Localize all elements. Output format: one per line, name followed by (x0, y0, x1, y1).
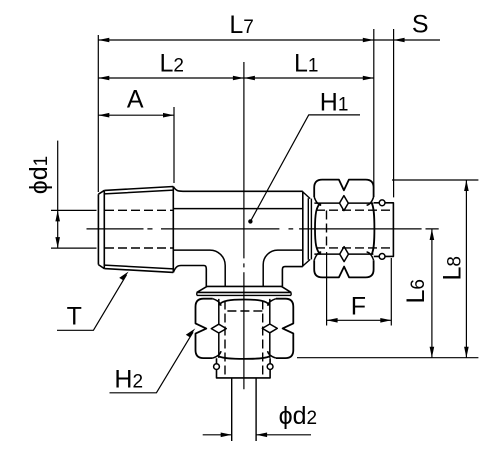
leader H1 with dot (250, 115, 360, 221)
body hex flat lower line with branch elbows (174, 250, 303, 286)
nut hex chamfer curves bottom (314, 252, 373, 260)
tapered male thread T outline (98, 187, 173, 273)
body end chamfers (303, 192, 310, 266)
extension line L8 top (nut top) (392, 179, 478, 181)
dimension L6 (431, 229, 433, 358)
thread crest lines (104, 190, 173, 269)
extension line left (x=98) (97, 35, 99, 192)
dimension phi d1 arrow stem (57, 141, 59, 249)
nut hex chamfer curves top (314, 197, 373, 205)
body right end face (302, 191, 304, 266)
extension line S right (x=394) (393, 29, 395, 197)
svg-text:A: A (127, 86, 144, 114)
svg-text:S: S (412, 11, 429, 39)
dimension F extension lines (327, 252, 392, 326)
dimension L2 / L1 (98, 77, 374, 79)
cap nub circles (379, 200, 385, 206)
body hex flat upper line (174, 208, 303, 210)
compression nut H1 with sleeve cap (right) (314, 180, 393, 278)
compression nut H2 with sleeve cap (bottom, rotated copy) (196, 299, 294, 378)
dimension phi d2 (203, 434, 311, 436)
extension line bottom (nut bottom face) (297, 357, 478, 359)
body bottom edge left of branch (173, 266, 206, 287)
dimension L7 (98, 39, 374, 41)
svg-text:T: T (67, 303, 82, 331)
branch flange band (197, 292, 291, 295)
nut barrel left edge (315, 203, 321, 254)
dimension S tail (374, 39, 440, 41)
nut boundary line bottom (314, 253, 373, 255)
body top edge (173, 187, 302, 192)
union collar rings (308, 198, 311, 260)
extension line right nut face (x=374) (373, 29, 375, 188)
dimension L8 (465, 180, 467, 358)
sleeve cap (374, 203, 394, 257)
branch flange top edge (206, 285, 282, 287)
dimension A (98, 114, 174, 116)
dimension phi d1 extension lines (51, 210, 97, 248)
body bottom edge right of branch (282, 267, 302, 287)
nut bottom hump (314, 260, 373, 277)
tube bore lines below bottom cap (232, 378, 256, 441)
tube depth hidden line (326, 211, 328, 248)
bore hidden lines in thread (phi d1) (105, 210, 173, 248)
nut boundary line top (314, 202, 373, 204)
centerline vertical branch axis (243, 62, 245, 389)
nut barrel right edge (372, 203, 375, 254)
centerline horizontal main axis (87, 228, 439, 230)
bore hidden lines through nut (316, 210, 391, 248)
svg-text:F: F (351, 293, 366, 321)
branch flange chamfer trapezoid (197, 286, 291, 292)
leader T with arrow (57, 275, 127, 331)
leader H2 with arrow (110, 332, 194, 393)
extension line A right (x=174) (173, 107, 175, 183)
dimension F (327, 319, 392, 321)
nut diamond top (340, 196, 349, 211)
nut top hump (314, 180, 373, 197)
nut diamond bottom (340, 247, 349, 262)
